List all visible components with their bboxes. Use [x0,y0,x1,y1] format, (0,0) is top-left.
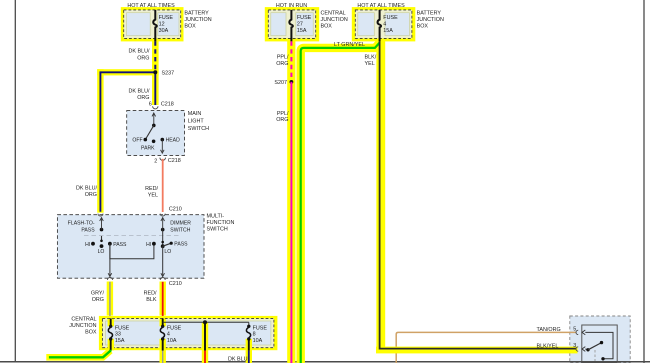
wire: BLK/YEL from fuse 4 down and right to dimmer switch pin 3 [365,41,577,349]
highlight: yellow band LT GRN/YEL bottom horizontal into fuse 33 [46,351,110,358]
svg-text:PASS: PASS [113,242,127,248]
svg-text:FUSE: FUSE [159,15,174,21]
connector C218 pin 6 [149,102,174,109]
highlight: yellow band BLK/YEL column and horizontal to dimmer switch [376,40,578,353]
svg-text:C210: C210 [169,207,182,213]
svg-text:DK BLU/: DK BLU/ [129,49,150,55]
svg-text:BLK/YEL: BLK/YEL [537,343,559,349]
fuse F12 30A [153,10,173,42]
svg-text:MAIN: MAIN [188,111,202,117]
wire: left output arrow to box bottom [108,244,112,277]
svg-text:PASS: PASS [81,228,95,234]
svg-text:YEL: YEL [148,193,158,199]
dimmer switch contact and arrow [161,218,191,255]
svg-text:C218: C218 [168,158,181,164]
fuse F4 10A (CJB) [160,318,181,350]
svg-text:SWITCH: SWITCH [207,226,228,232]
highlight: yellow band RED/BLK MFS to CJB [160,282,166,316]
svg-text:RED/: RED/ [144,290,157,296]
svg-text:TAN/ORG: TAN/ORG [537,327,561,333]
fuse F8 10A [246,322,267,350]
wire: PPL/ORG solid below S207 [276,82,291,363]
svg-text:SWITCH: SWITCH [170,228,190,234]
svg-text:BATTERY: BATTERY [417,11,442,17]
svg-text:JUNCTION: JUNCTION [417,17,444,23]
svg-text:CENTRAL: CENTRAL [71,317,96,323]
wire: bottom horizontal gray wire [0,361,650,363]
svg-text:6: 6 [149,102,152,108]
svg-text:OFF: OFF [132,138,142,144]
highlight: yellow band DK BLU/ORG fuse12 to S237 and to C218 [152,40,159,105]
highlight: yellow band wires below CJB [160,350,253,363]
svg-text:S237: S237 [162,70,175,76]
svg-text:ORG: ORG [137,56,149,62]
wire: right output arrow to box bottom [161,246,165,276]
svg-text:JUNCTION: JUNCTION [184,17,211,23]
svg-text:DK BLU/: DK BLU/ [76,186,97,192]
battery junction box (fuse 12) [121,7,212,41]
connector C210 top of multi-function switch [98,207,182,217]
wire: left vertical gray wire [14,0,16,362]
svg-text:CENTRAL: CENTRAL [321,11,346,17]
wire: middle output of CJB (red below box) [204,322,206,363]
svg-text:BOX: BOX [184,24,196,30]
node: HOT AT ALL TIMES label (battery junction box fuse 4) [357,3,405,9]
svg-text:ORG: ORG [276,61,288,67]
wire: GRY/ORG from MFS to CJB [91,282,110,319]
wire: DK BLU/ORG dashed from fuse 12 to S237 [129,41,156,70]
wire: DK BLU output below CJB fuse 8 [228,351,249,363]
main light switch box [127,111,209,156]
dimmer switch assembly box (bottom right) [570,316,630,363]
svg-text:LIGHT: LIGHT [188,119,205,125]
svg-text:PPL/: PPL/ [277,55,289,61]
svg-text:FUSE: FUSE [167,325,182,331]
svg-text:10A: 10A [167,338,177,344]
svg-text:C210: C210 [169,281,182,287]
svg-text:DIMMER: DIMMER [170,221,191,227]
svg-text:JUNCTION: JUNCTION [321,17,348,23]
svg-text:BOX: BOX [321,24,333,30]
main light switch contacts [132,113,180,153]
svg-text:10A: 10A [253,338,263,344]
highlight: yellow band S237 branch left/down to MFS [97,69,158,213]
svg-text:FUSE: FUSE [115,325,130,331]
svg-text:YEL: YEL [365,61,375,67]
svg-text:FUSE: FUSE [253,325,268,331]
wire: TAN/ORG wire to dimmer switch pin 5 [396,327,576,363]
dimmer switch internal wiring [585,332,613,361]
wire: PPL/ORG dashed from fuse 27 to S207 [276,41,291,79]
svg-text:15A: 15A [115,338,125,344]
svg-text:FUSE: FUSE [297,15,312,21]
svg-text:ORG: ORG [137,95,149,101]
svg-text:C218: C218 [161,102,174,108]
svg-text:12: 12 [159,22,165,28]
node: HOT IN RUN label (CJB fuse 27) [276,3,307,9]
splice S207 [274,80,293,86]
flash-to-pass contact and arrow [68,218,103,234]
central junction box (fuse 27) [265,7,348,41]
svg-text:PASS: PASS [174,242,188,248]
svg-text:ORG: ORG [276,117,288,123]
fuse F4 15A (BJB) [378,10,399,42]
svg-text:PARK: PARK [141,145,155,151]
wire: RED/BLK from MFS to CJB [144,282,163,319]
svg-text:FUSE: FUSE [383,15,398,21]
svg-text:BLK: BLK [146,297,157,303]
svg-text:BOX: BOX [85,330,97,336]
left dimmer contacts HI LO PASS [85,236,127,255]
wire: DK BLU/ORG branch from S237 to multi-function switch [76,72,155,212]
svg-text:HEAD: HEAD [166,138,180,144]
central junction box (bottom) [69,316,277,350]
svg-text:ORG: ORG [92,297,104,303]
wire: LT GRN/YEL branch from fuse 4 down the left [301,42,380,363]
svg-text:RED/: RED/ [145,186,158,192]
fuse F27 15A [289,10,311,42]
wire: bus inside CJB from fuse 4 to fuse 8 [163,320,249,324]
svg-text:BATTERY: BATTERY [184,11,209,17]
svg-text:2: 2 [154,159,157,165]
wire: link from left PASS contact to right HI contact [110,242,156,259]
battery junction box (fuse 4) [352,7,444,41]
wire: DK BLU/ORG from S237 to C218 pin 6 [129,72,156,105]
svg-text:4: 4 [167,332,170,338]
svg-text:15A: 15A [383,28,393,34]
svg-text:4: 4 [383,22,386,28]
svg-text:BLK/: BLK/ [365,54,377,60]
svg-text:ORG: ORG [85,192,97,198]
connector pin 5 of dimmer switch [573,327,585,335]
connector pin 3 of dimmer switch [573,343,585,351]
wire: RED/YEL from main light switch to C210 [145,159,163,212]
svg-text:FLASH-TO-: FLASH-TO- [68,221,95,227]
svg-text:33: 33 [115,332,121,338]
splice S237 [153,70,174,76]
svg-text:S207: S207 [274,80,287,86]
svg-text:27: 27 [297,22,303,28]
svg-text:HI: HI [85,242,90,248]
svg-text:LO: LO [98,249,105,255]
svg-text:LT GRN/YEL: LT GRN/YEL [334,42,365,48]
svg-text:MULTI-: MULTI- [207,213,225,219]
svg-text:FUNCTION: FUNCTION [207,220,235,226]
highlight: yellow band GRY/ORG MFS to CJB [107,282,113,316]
wire: GRY output below CJB fuse 4 [162,351,164,363]
highlight: yellow band LT GRN/YEL branch and column [301,43,380,363]
highlight: yellow bands along fuse wires inside CJB [108,319,252,351]
multi-function switch box [57,213,234,278]
connector C210 bottom of multi-function switch [108,278,182,287]
svg-text:BOX: BOX [417,24,429,30]
svg-text:HI: HI [146,242,151,248]
svg-text:GRY/: GRY/ [91,290,105,296]
fuse F33 15A [108,318,129,350]
svg-text:LO: LO [164,249,171,255]
svg-text:15A: 15A [297,28,307,34]
svg-text:30A: 30A [159,28,169,34]
connector C218 pin 2 [154,158,181,165]
divider dashed line inside multi-function switch [84,234,179,236]
node: HOT AT ALL TIMES label (battery junction box fuse 12) [127,3,175,9]
wire: LT GRN/YEL bottom horizontal into fuse 33 [49,350,111,358]
highlight: yellow band PPL/ORG column [287,40,295,363]
svg-text:SWITCH: SWITCH [188,126,209,132]
svg-text:DK BLU: DK BLU [228,357,248,363]
svg-text:DK BLU/: DK BLU/ [129,89,150,95]
svg-text:JUNCTION: JUNCTION [69,323,96,329]
wire: right vertical gray wire [643,0,645,363]
svg-text:8: 8 [253,332,256,338]
